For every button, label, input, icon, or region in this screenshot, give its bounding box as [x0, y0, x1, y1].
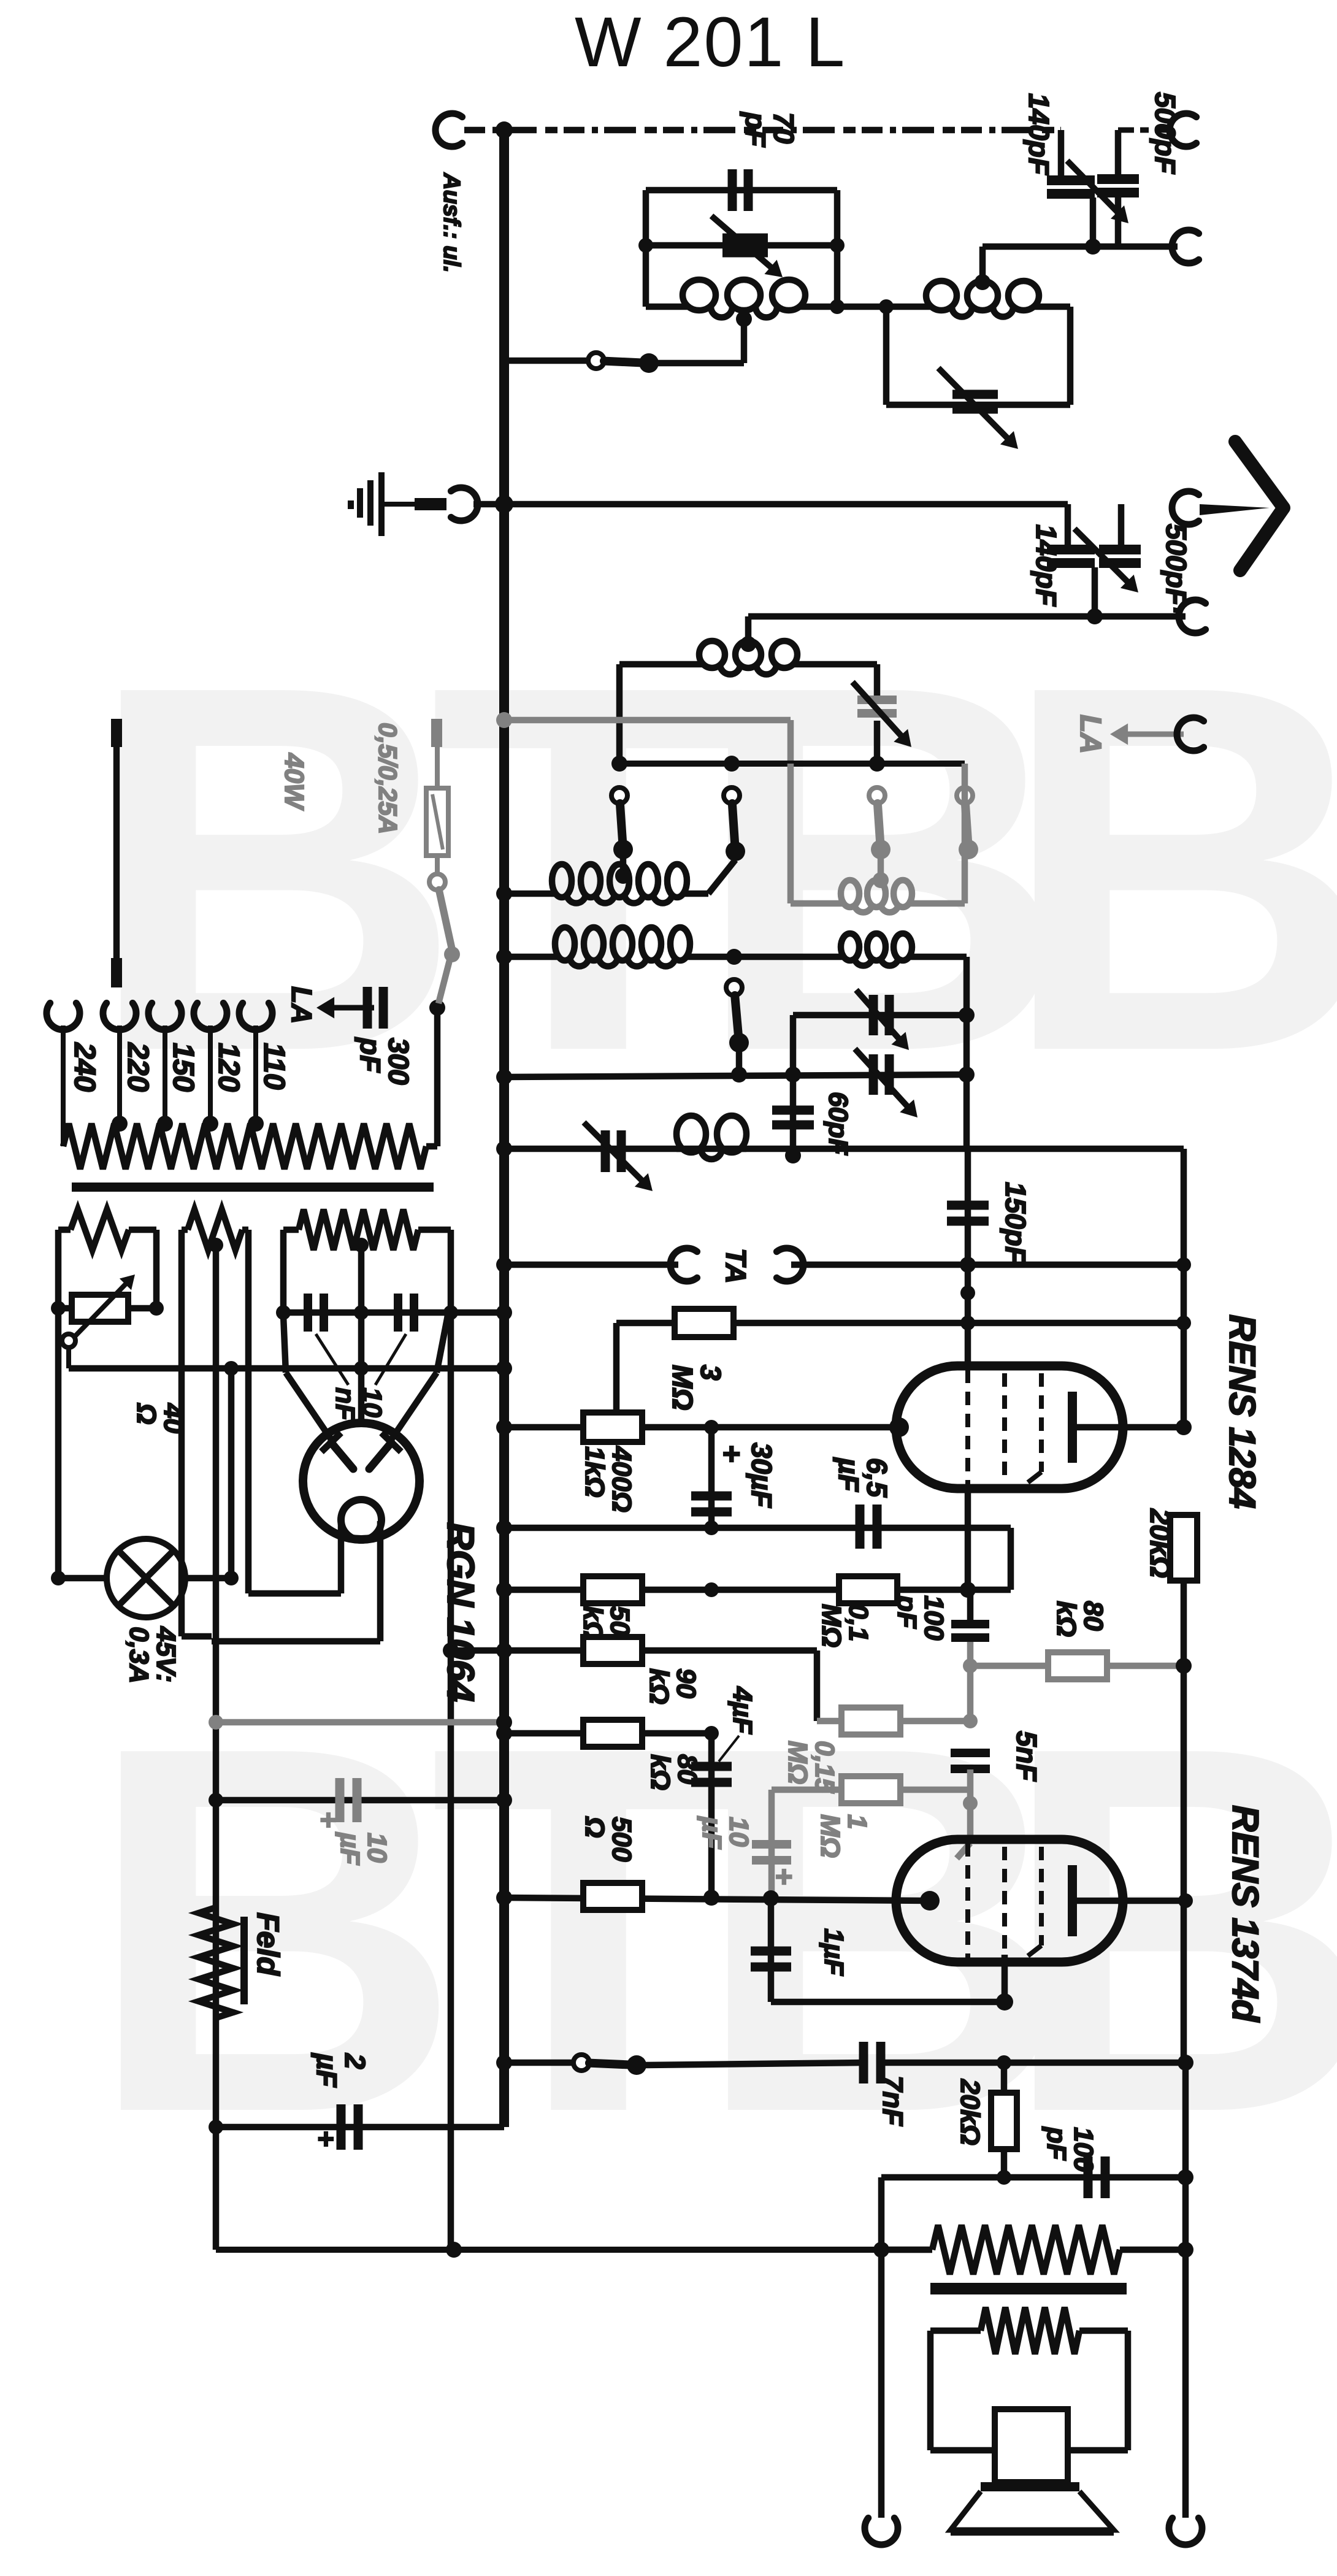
svg-text:140pF: 140pF [1023, 93, 1055, 176]
svg-text:45V:0,3A: 45V:0,3A [124, 1626, 181, 1684]
svg-text:20kΩ: 20kΩ [955, 2079, 985, 2145]
svg-text:+: + [313, 1812, 345, 1828]
svg-text:Feld: Feld [251, 1912, 285, 1976]
svg-text:B: B [1000, 578, 1337, 1160]
svg-text:220: 220 [121, 1042, 154, 1092]
svg-text:5nF: 5nF [1011, 1731, 1043, 1782]
svg-text:150: 150 [167, 1043, 199, 1092]
svg-text:LA: LA [286, 986, 318, 1024]
svg-text:150pF: 150pF [1000, 1182, 1032, 1265]
svg-text:+: + [767, 1868, 800, 1885]
svg-text:W 201 L: W 201 L [575, 3, 846, 82]
svg-text:40W: 40W [279, 753, 309, 811]
svg-text:110: 110 [258, 1043, 290, 1090]
svg-text:1µF: 1µF [819, 1928, 849, 1976]
svg-text:RENS 1284: RENS 1284 [1222, 1314, 1263, 1509]
svg-text:30µF: 30µF [746, 1443, 778, 1509]
svg-text:+: + [714, 1445, 749, 1463]
svg-text:Ausf.: ul.: Ausf.: ul. [439, 172, 464, 273]
svg-text:RGN 1064: RGN 1064 [439, 1522, 481, 1702]
svg-text:10µF: 10µF [697, 1815, 754, 1849]
svg-text:20kΩ: 20kΩ [1144, 1508, 1176, 1578]
svg-text:10nF: 10nF [330, 1387, 387, 1421]
svg-text:RENS 1374d: RENS 1374d [1225, 1805, 1266, 2023]
svg-text:240: 240 [68, 1042, 101, 1092]
svg-text:70pF: 70pF [740, 111, 800, 148]
svg-text:4µF: 4µF [727, 1686, 757, 1735]
svg-text:7nF: 7nF [877, 2076, 909, 2127]
svg-text:140pF: 140pF [1030, 524, 1062, 607]
svg-text:TA: TA [720, 1248, 752, 1284]
svg-text:0,1MΩ: 0,1MΩ [816, 1604, 873, 1647]
svg-text:LA: LA [1074, 715, 1106, 754]
svg-text:+: + [310, 2131, 342, 2147]
svg-text:0,5/0,25A: 0,5/0,25A [374, 723, 402, 834]
svg-text:10µF: 10µF [335, 1831, 392, 1865]
svg-text:500pF: 500pF [1149, 92, 1181, 175]
svg-text:120: 120 [212, 1043, 245, 1092]
